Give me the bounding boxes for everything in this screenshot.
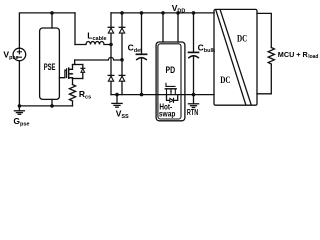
wire output bottom xyxy=(257,64,271,94)
node PSE top pin xyxy=(50,11,54,15)
svg-text:PD: PD xyxy=(166,65,176,75)
wire PSE top pin xyxy=(51,13,53,28)
node Cbulk top xyxy=(192,11,196,15)
wire return wire with hop xyxy=(75,57,122,60)
wire Rcs bottom to ground wire xyxy=(72,101,74,106)
node PD pin 1 xyxy=(161,11,165,15)
wire source to Rcs xyxy=(72,79,74,85)
wire top-left rail from Vpse to corner x75 xyxy=(19,13,75,48)
capacitor Cbulk xyxy=(189,13,199,95)
svg-text:swap: swap xyxy=(159,109,176,119)
svg-text:load: load xyxy=(308,54,318,60)
block PD outer xyxy=(156,42,185,121)
ground Vss xyxy=(112,95,122,108)
wire riser to return wire xyxy=(74,60,76,65)
node PSE bottom pin xyxy=(50,104,54,108)
resistor Rload xyxy=(268,48,274,65)
node right rail top xyxy=(120,11,124,15)
diode D1 bridge top-left xyxy=(108,27,114,33)
wire top rail right xyxy=(111,12,214,14)
svg-text:Cbulk: Cbulk xyxy=(198,43,216,54)
wire MOSFET bottom node xyxy=(73,78,83,80)
wire PD pin 1 xyxy=(162,13,164,42)
wire vertical x75 down to inductor wire xyxy=(74,13,76,45)
svg-text:DC: DC xyxy=(237,34,247,44)
svg-text:RTN: RTN xyxy=(187,108,198,117)
svg-text:Vpse: Vpse xyxy=(3,50,18,61)
wire bottom-left ground wire xyxy=(19,105,72,107)
wire MOSFET top node xyxy=(73,64,83,66)
svg-text:VSS: VSS xyxy=(116,109,129,120)
block DC/DC converter xyxy=(214,9,257,105)
wire PD pin 2 xyxy=(177,13,179,42)
inductor Lcable xyxy=(75,42,111,45)
node PD pin 2 xyxy=(176,11,180,15)
capacitor Cdet xyxy=(136,13,146,95)
wire Vpse bottom lead xyxy=(18,61,20,106)
svg-text:Lcable: Lcable xyxy=(87,31,106,42)
wire output top xyxy=(257,13,271,47)
node Cdet bottom xyxy=(140,93,144,97)
voltage source Vpse xyxy=(13,48,26,61)
wire PSE bottom pin xyxy=(51,99,53,106)
transistor Q2 hot-swap MOSFET xyxy=(165,83,176,94)
diode D4 bridge bottom-right xyxy=(119,75,125,81)
wire left bridge rail xyxy=(110,13,112,95)
node return to bridge xyxy=(120,58,124,62)
ground Gpse xyxy=(14,106,24,114)
node Cbulk bottom RTN xyxy=(192,93,196,97)
svg-text:Cdet: Cdet xyxy=(128,43,143,54)
wire right bridge rail xyxy=(121,13,123,95)
svg-text:Gpse: Gpse xyxy=(13,116,29,127)
block PSE xyxy=(40,28,60,99)
node Vpse bottom xyxy=(18,104,22,108)
wire bottom rail Vss xyxy=(111,94,214,96)
transistor Q1 PSE MOSFET xyxy=(67,65,73,79)
svg-text:MCU + R: MCU + R xyxy=(278,52,308,59)
diode D5 body diode xyxy=(81,65,85,79)
diode D2 bridge top-right xyxy=(119,27,125,33)
node Cdet top xyxy=(140,11,144,15)
wire PSE gate lead xyxy=(59,70,66,78)
svg-text:DC: DC xyxy=(220,76,230,86)
resistor Rcs xyxy=(69,85,75,102)
wire DC/DC diagonal 2 xyxy=(220,10,251,105)
svg-text:Rcs: Rcs xyxy=(79,89,91,100)
block PD inner xyxy=(158,44,181,119)
diode D3 bridge bottom-left xyxy=(108,75,114,81)
svg-text:PSE: PSE xyxy=(44,62,56,72)
node inductor to bridge xyxy=(109,43,113,47)
wire DC/DC diagonal 1 xyxy=(216,10,246,105)
node Vss ground xyxy=(115,93,119,97)
diode D6 hot-swap body diode xyxy=(167,95,178,103)
ground RTN xyxy=(188,95,198,108)
svg-text:VDD: VDD xyxy=(172,3,186,14)
